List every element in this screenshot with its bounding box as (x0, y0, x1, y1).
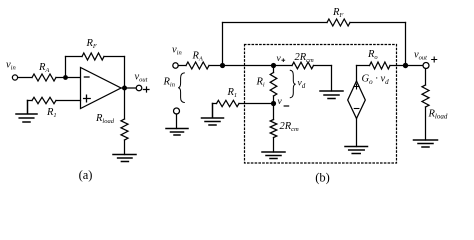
node v+ bottom (b) (271, 101, 276, 106)
wire (425, 69, 427, 86)
wire (405, 23, 407, 66)
resistor 2Rcm top (b) (292, 62, 314, 69)
minus subscript of bottom node v- (284, 105, 288, 107)
ground middle (b) (320, 91, 343, 99)
svg-text:(a): (a) (79, 168, 93, 182)
wire (390, 65, 423, 67)
ground (a) left (16, 101, 37, 123)
wire (104, 56, 125, 58)
ground under Rload (b) (414, 140, 438, 147)
plus sign vout (a) (143, 87, 149, 92)
resistor RF (a) (82, 53, 104, 60)
wire (273, 66, 275, 73)
tiny plus subscript of top node v+ (282, 59, 285, 62)
brace Rin (178, 73, 184, 103)
plus sign vout (b) (432, 57, 437, 62)
wire (56, 100, 81, 102)
wire (239, 103, 274, 105)
wire (356, 66, 358, 82)
wire (176, 114, 178, 129)
wire (350, 22, 406, 24)
wire (28, 100, 33, 102)
ground under R1 (b) (202, 104, 224, 126)
brace vd (290, 70, 295, 97)
resistor Rload (a) (121, 119, 128, 140)
wire (209, 65, 292, 67)
ground under source (b) (345, 147, 368, 154)
wire (65, 57, 67, 78)
node vin terminal (a) (12, 75, 17, 80)
node vout terminal (a) (136, 85, 142, 91)
wire (178, 65, 186, 67)
op-amp U1 (81, 68, 122, 109)
resistor R1 (a) (32, 97, 56, 103)
resistor RF (b) (327, 19, 350, 26)
resistor Ri (b) (270, 73, 277, 97)
wire (124, 88, 126, 119)
node vin terminal (b) (173, 63, 178, 68)
resistor Rload (b) (422, 85, 429, 107)
node junction inverting input (a) (63, 75, 68, 80)
resistor RA (b) (186, 62, 209, 69)
op-amp minus input sign (84, 76, 89, 78)
plus sign in source (354, 84, 359, 89)
minus sign in source (354, 108, 359, 110)
wire (425, 107, 427, 140)
ground (a) under Rload (113, 155, 136, 162)
wire (222, 23, 224, 66)
svg-text:Go · vd: Go · vd (362, 74, 390, 86)
ground bottom inside box (b) (262, 152, 285, 159)
wire (66, 56, 83, 58)
svg-text:(b): (b) (315, 170, 330, 184)
dependent source Go vd (348, 81, 366, 119)
wire (213, 103, 217, 105)
wire (314, 65, 332, 67)
node lower input terminal (b) (174, 108, 180, 114)
wire (356, 119, 358, 147)
wire (273, 138, 275, 153)
wire (331, 66, 333, 92)
wire (18, 77, 32, 79)
node junction RA-RF (b) (220, 63, 225, 68)
node output (a) (122, 86, 127, 91)
wire (124, 140, 126, 155)
dashed op-amp model box (245, 45, 397, 164)
resistor 2Rcm bottom (b) (270, 120, 277, 138)
node output (b) (403, 63, 408, 68)
wire (124, 57, 126, 89)
node vout terminal (b) (423, 63, 429, 69)
wire (223, 22, 328, 24)
resistor R1 (b) (217, 100, 240, 106)
resistor RA (a) (32, 74, 56, 81)
wire (357, 65, 370, 67)
ground lower input (b) (166, 129, 188, 136)
op-amp plus input sign (84, 95, 91, 102)
wire (121, 87, 136, 89)
wire (56, 77, 81, 79)
node v- top (b) (271, 63, 276, 68)
wire (273, 104, 275, 120)
wire (273, 96, 275, 104)
resistor Ro (b) (370, 62, 391, 69)
